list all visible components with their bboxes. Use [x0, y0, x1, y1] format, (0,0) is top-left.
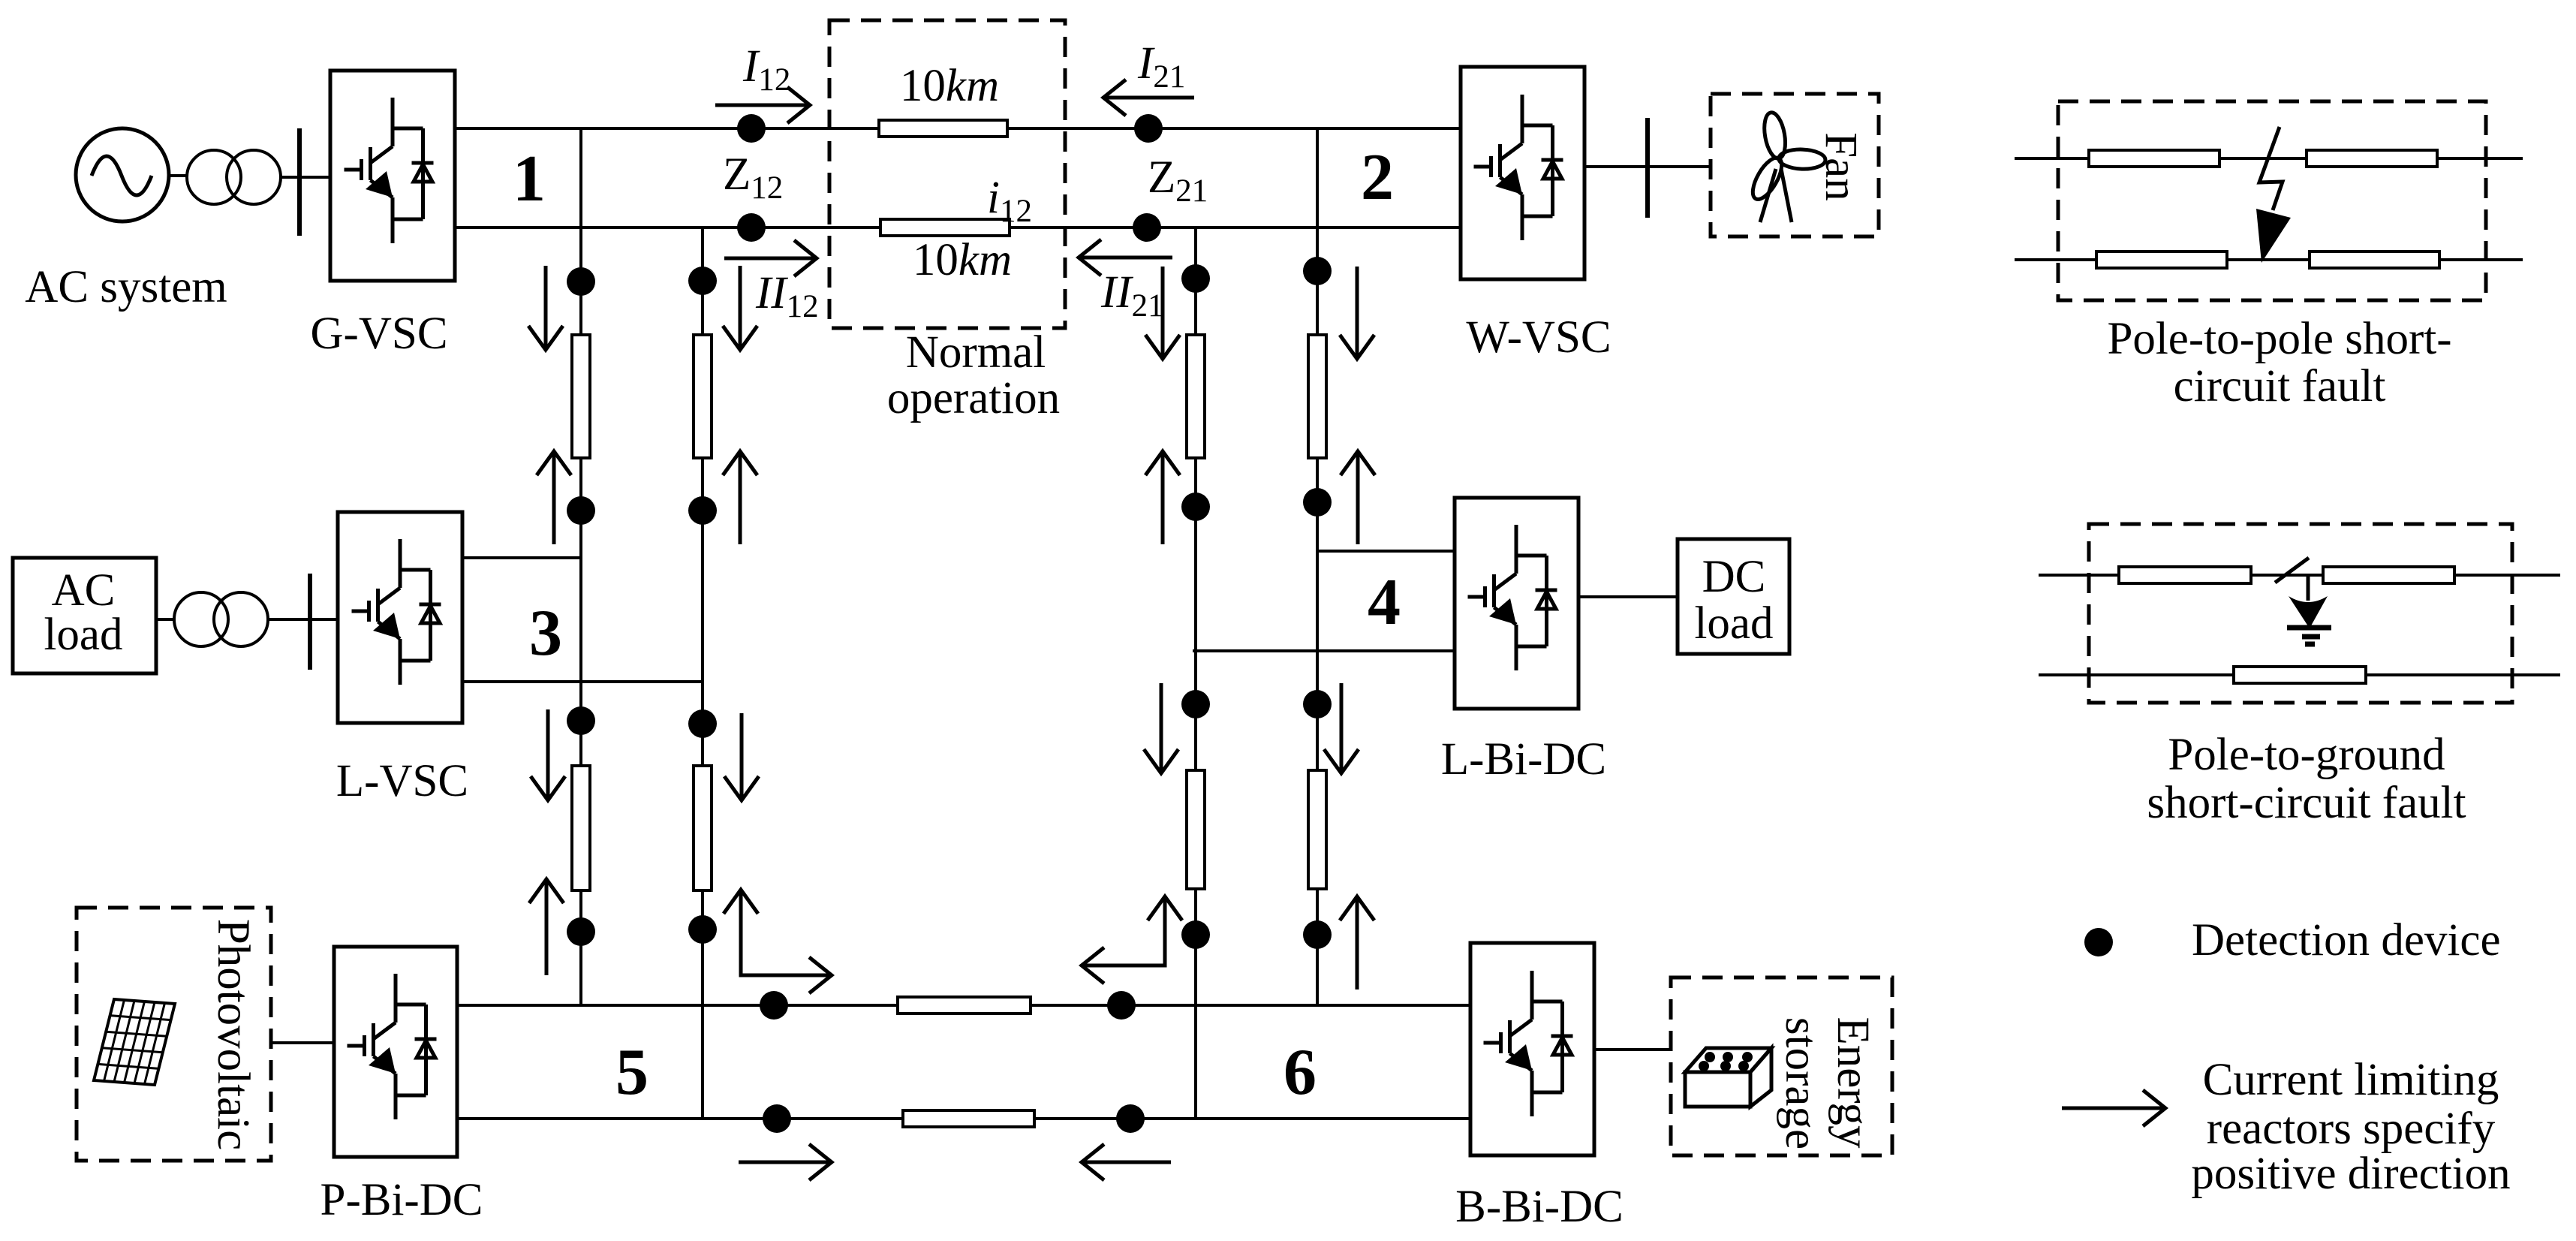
reactor on bus5-bus6 negative line — [903, 1110, 1034, 1127]
wire transformer T1 to G-VSC — [281, 176, 330, 179]
svg-text:circuit fault: circuit fault — [2174, 361, 2386, 411]
wire bus1 positive pole (node 1 to node 2, y=171) — [455, 127, 1461, 130]
svg-text:AC: AC — [52, 565, 116, 616]
arrow right, bus5 to bus6 lower line — [739, 1144, 832, 1180]
wire bus3 positive pole — [462, 556, 581, 559]
IGBT with antiparallel diode inside B-Bi-DC — [1484, 971, 1573, 1116]
reactor line A segment 2 — [572, 766, 590, 890]
arrow up, line D above bus6 — [1340, 896, 1374, 989]
detection device dot, positive line left of normal-operation box — [737, 114, 766, 143]
arrow up with bend right (line B above bus5 / current into 5-6 line) — [724, 890, 832, 993]
battery (energy storage) — [1685, 1048, 1771, 1107]
svg-text:1: 1 — [513, 143, 546, 215]
arrow I12 current direction — [715, 87, 810, 123]
detection device dot, line C below bus4 — [1181, 690, 1210, 718]
svg-text:L-Bi-DC: L-Bi-DC — [1441, 734, 1606, 785]
detection device dot, line B above bus3 — [688, 496, 717, 525]
reactor left on negative pole — [2096, 252, 2227, 268]
svg-text:3: 3 — [529, 597, 562, 670]
detection device dot, line A above bus3 — [567, 496, 595, 525]
AC bus bar tick at G-VSC — [297, 128, 302, 236]
dashed box normal operation — [829, 20, 1065, 328]
svg-text:reactors specify: reactors specify — [2207, 1104, 2496, 1154]
dashed box pole-to-pole fault — [2058, 101, 2486, 300]
svg-text:Photovoltaic: Photovoltaic — [208, 919, 258, 1150]
wire bus5-bus6 negative pole (y=1490) — [457, 1117, 1470, 1120]
detection device dot, line D below bus4 — [1303, 690, 1332, 718]
wire negative pole of fault example 2 — [2039, 673, 2560, 676]
detection device dot, line A below bus3 — [567, 706, 595, 735]
wire AC load to transformer T3 — [156, 618, 176, 621]
arrow down, line A below bus3 — [531, 709, 565, 800]
wire bus1 negative pole (node 1 to node 2, y=303) — [455, 226, 1461, 229]
svg-text:Pole-to-pole short-: Pole-to-pole short- — [2107, 314, 2451, 364]
wire positive pole of fault example 1 — [2015, 157, 2523, 160]
svg-text:Fan: Fan — [1816, 132, 1866, 201]
reactor line C segment 1 — [1187, 335, 1205, 458]
detection device dot, negative line right of normal-operation box — [1133, 213, 1161, 242]
arrow down, line D below bus4 — [1324, 683, 1359, 773]
arrow II21 current direction — [1079, 239, 1172, 276]
AC source (AC system) — [76, 128, 169, 221]
detection device dot, line D above bus6 — [1303, 920, 1332, 949]
wind turbine (fan) — [1747, 111, 1826, 222]
wire bus3 negative pole — [462, 680, 703, 683]
fault flash to ground — [2275, 558, 2309, 601]
svg-text:W-VSC: W-VSC — [1466, 312, 1611, 363]
converter W-VSC box — [1461, 67, 1584, 279]
converter B-Bi-DC box — [1470, 943, 1594, 1155]
wire W-VSC to fan — [1584, 165, 1711, 168]
svg-text:B-Bi-DC: B-Bi-DC — [1455, 1182, 1624, 1232]
wire line A (bus1 to bus3 to bus5 left column) — [579, 128, 582, 1005]
svg-text:Pole-to-ground: Pole-to-ground — [2168, 730, 2445, 780]
converter L-VSC box — [338, 512, 462, 723]
reactor line B segment 1 — [694, 335, 712, 458]
svg-text:L-VSC: L-VSC — [336, 756, 468, 806]
IGBT with antiparallel diode inside W-VSC — [1474, 95, 1563, 240]
reactor line B segment 2 — [694, 766, 712, 890]
arrow left, bus6 to bus5 lower line — [1082, 1144, 1171, 1180]
reactor on negative pole — [2234, 667, 2366, 683]
converter P-Bi-DC box — [334, 947, 457, 1157]
detection device dot, line A below bus1 — [567, 267, 595, 296]
reactor on bus5-bus6 positive line — [898, 997, 1031, 1014]
reactor line D segment 1 — [1308, 335, 1326, 458]
svg-text:short-circuit fault: short-circuit fault — [2147, 778, 2466, 828]
svg-text:positive direction: positive direction — [2191, 1149, 2510, 1199]
svg-text:AC system: AC system — [25, 262, 227, 312]
detection device dot, line D below bus2 — [1303, 257, 1332, 285]
svg-text:10km: 10km — [900, 61, 999, 111]
detection device dot, negative line left of normal-operation box — [737, 213, 766, 242]
wire AC source to transformer T1 — [169, 174, 188, 177]
svg-text:operation: operation — [887, 373, 1060, 423]
arrow up, line C above bus4 — [1145, 451, 1180, 544]
wire positive pole of fault example 2 — [2039, 574, 2560, 577]
detection device dot, line C below bus2 — [1181, 264, 1210, 293]
transformer T3 (two overlapping circles) — [174, 592, 268, 646]
IGBT with antiparallel diode inside P-Bi-DC — [348, 974, 437, 1119]
lightning bolt pole-to-pole fault — [2259, 127, 2283, 210]
arrow up, line A above bus3 — [537, 451, 571, 544]
wire line D (bus2 to bus4 to bus6 right column) — [1316, 128, 1319, 1005]
svg-text:storage: storage — [1776, 1017, 1826, 1149]
svg-text:DC: DC — [1702, 552, 1766, 602]
arrow up with bend left (line C above bus6 / current into 6-5 line) — [1082, 896, 1182, 983]
detection device dot, bus6 negative line — [1116, 1104, 1145, 1133]
dashed box fan — [1711, 94, 1879, 236]
dashed box pole-to-ground fault — [2089, 524, 2512, 703]
converter G-VSC box — [330, 71, 455, 281]
reactor Z12 on positive line 1-2 — [879, 120, 1007, 137]
svg-text:5: 5 — [615, 1036, 649, 1109]
svg-text:10km: 10km — [913, 235, 1012, 285]
arrow down, line D below bus2 — [1340, 267, 1374, 359]
arrow down, line B below bus3 — [724, 713, 759, 800]
arrow down, line A below bus1 — [528, 266, 563, 350]
svg-text:Current limiting: Current limiting — [2203, 1055, 2499, 1105]
svg-text:4: 4 — [1368, 566, 1401, 639]
dashed box energy storage — [1671, 977, 1892, 1155]
arrow I21 current direction — [1103, 80, 1194, 116]
wire bus5-bus6 positive pole (y=1339) — [457, 1004, 1470, 1007]
wire line B (bus1 to bus3 to bus5 right column) — [701, 227, 704, 1119]
detection device dot, line A above bus5 — [567, 917, 595, 946]
wire B-Bi-DC to energy storage — [1594, 1048, 1671, 1051]
reactor right on positive pole — [2307, 150, 2437, 167]
DC load box — [1678, 539, 1789, 654]
wire bus4 positive pole — [1317, 550, 1455, 553]
svg-text:Detection device: Detection device — [2192, 915, 2501, 965]
dashed box photovoltaic — [77, 908, 271, 1161]
detection device dot, line C above bus4 — [1181, 492, 1210, 521]
detection device dot, line C above bus6 — [1181, 920, 1210, 949]
reactor line C segment 2 — [1187, 770, 1205, 889]
svg-text:load: load — [1694, 598, 1773, 649]
arrow II12 current direction — [724, 240, 817, 276]
detection device dot, bus5 positive line — [760, 991, 788, 1020]
detection device dot, line B below bus3 — [688, 709, 717, 738]
wire line C (bus2 to bus4 to bus6 left column) — [1194, 227, 1197, 1119]
detection device dot, positive line right of normal-operation box — [1134, 114, 1163, 143]
reactor right on positive pole — [2323, 567, 2454, 583]
svg-text:Normal: Normal — [906, 327, 1046, 378]
AC load box — [13, 558, 156, 673]
wire bus4 negative pole — [1193, 649, 1455, 652]
svg-text:2: 2 — [1361, 141, 1394, 214]
detection device dot, line B above bus5 — [688, 915, 717, 944]
wire photovoltaic to P-Bi-DC — [271, 1041, 334, 1044]
svg-text:Energy: Energy — [1828, 1017, 1878, 1149]
svg-text:6: 6 — [1283, 1036, 1317, 1109]
AC bus bar tick at W-VSC — [1645, 118, 1650, 218]
detection device dot, bus6 positive line — [1107, 991, 1136, 1020]
svg-text:load: load — [44, 610, 122, 660]
svg-text:P-Bi-DC: P-Bi-DC — [320, 1175, 483, 1225]
detection device dot, line D above bus4 — [1303, 488, 1332, 517]
AC bus bar tick at L-VSC — [308, 574, 312, 670]
arrow up, line B above bus3 — [723, 451, 757, 544]
reactor right on negative pole — [2310, 252, 2439, 268]
svg-text:G-VSC: G-VSC — [310, 309, 447, 359]
reactor Z12 on negative line 1-2 — [880, 219, 1010, 236]
reactor left on positive pole — [2119, 567, 2251, 583]
transformer T1 (two overlapping circles) — [187, 150, 281, 204]
solar panel — [94, 999, 175, 1085]
reactor left on positive pole — [2089, 150, 2219, 167]
detection device legend dot — [2084, 928, 2113, 956]
wire L-Bi-DC to DC load — [1578, 595, 1678, 598]
arrow down, line C below bus2 — [1145, 267, 1180, 359]
wire negative pole of fault example 1 — [2015, 258, 2523, 261]
reactor line D segment 2 — [1308, 770, 1326, 889]
arrow down, line C below bus4 — [1144, 683, 1178, 773]
legend arrow current direction — [2062, 1090, 2165, 1126]
ground symbol — [2287, 628, 2331, 644]
arrow up, line A above bus5 — [529, 879, 564, 975]
IGBT with antiparallel diode inside L-Bi-DC — [1468, 525, 1557, 670]
arrow up, line D above bus4 — [1341, 451, 1375, 544]
detection device dot, line B below bus1 — [688, 267, 717, 295]
IGBT with antiparallel diode inside L-VSC — [352, 539, 441, 685]
reactor line A segment 1 — [572, 335, 590, 458]
arrow down, line B below bus1 — [723, 266, 757, 350]
converter L-Bi-DC box — [1455, 498, 1578, 709]
detection device dot, bus5 negative line — [763, 1104, 791, 1133]
IGBT with antiparallel diode inside G-VSC — [345, 98, 434, 243]
wire transformer T3 to L-VSC — [268, 618, 338, 621]
